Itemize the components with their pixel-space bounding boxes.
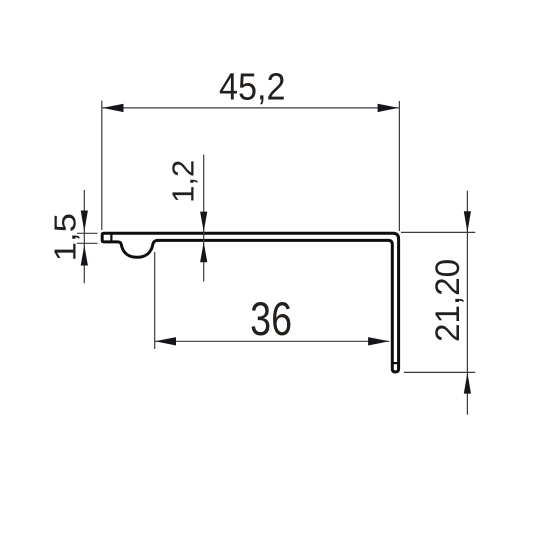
svg-text:36: 36 [250,293,292,346]
dimension 45,2 : right extension line [398,101,400,231]
dimension 1,2 : upper arrowhead [200,212,207,232]
dimension 1,5 : upper arrowhead [81,211,88,232]
dimension 36 : left arrowhead [155,337,176,345]
dimension 21,20 : upper arrowhead [464,211,471,232]
dimension 21,20 : lower arrowhead [464,373,471,394]
dimension 36 : dimension line [155,340,389,342]
dimension 45,2 : right arrowhead [378,104,399,112]
svg-text:45,2: 45,2 [219,65,286,108]
tip divider line [110,234,112,241]
dimension 21,20 : upper extension line [401,231,475,233]
dimension 1,2 : lower arrowhead [200,242,207,262]
profile outline (aluminium L-profile cross-section with drip bead) [102,233,398,372]
svg-text:1,2: 1,2 [166,160,201,203]
dimension 36 : right arrowhead [368,337,389,345]
svg-text:21,20: 21,20 [429,259,468,342]
dimension 1,5 : dimension line [83,190,85,283]
dimension 21,20 : dimension line [466,191,468,415]
dimension 21,20 : lower extension line [404,371,475,373]
dimension 1,5 : upper extension tick [77,232,98,234]
dimension 45,2 : left extension line [101,101,103,231]
dimension 45,2 : left arrowhead [103,104,124,112]
dimension 45,2 : dimension line [102,107,399,109]
leg divider line [393,362,399,364]
dimension 1,5 : lower arrowhead [81,245,88,266]
svg-text:1,5: 1,5 [47,213,82,261]
dimension 36 : left extension line [154,252,156,349]
dimension 1,5 : lower extension tick [77,242,98,244]
dimension 1,2 : dimension line [203,155,205,282]
